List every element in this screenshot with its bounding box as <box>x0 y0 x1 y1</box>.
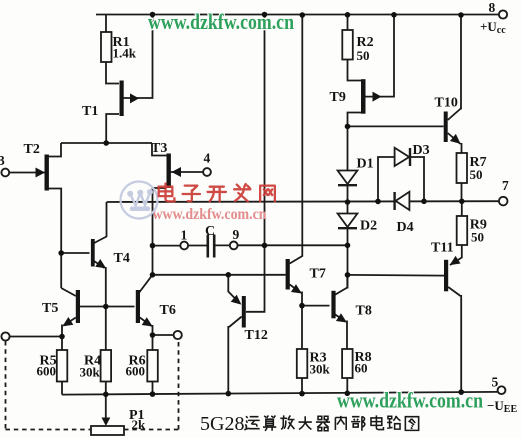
svg-text:9: 9 <box>233 227 240 242</box>
svg-text:1.4k: 1.4k <box>113 46 137 61</box>
svg-text:3: 3 <box>0 153 5 168</box>
svg-text:T7: T7 <box>310 267 326 282</box>
svg-text:T8: T8 <box>356 304 372 319</box>
svg-text:T1: T1 <box>82 104 98 119</box>
svg-text:600: 600 <box>37 364 57 379</box>
svg-text:T3: T3 <box>151 141 167 156</box>
svg-text:www.dzkfw.com.cn: www.dzkfw.com.cn <box>153 206 267 223</box>
svg-text:5G28: 5G28 <box>200 413 244 435</box>
svg-text:www.dzkfw.com.cn: www.dzkfw.com.cn <box>148 9 294 34</box>
svg-text:T11: T11 <box>431 241 454 256</box>
svg-text:8: 8 <box>489 0 496 15</box>
svg-text:T12: T12 <box>245 328 268 343</box>
svg-text:T2: T2 <box>24 142 40 157</box>
svg-text:D1: D1 <box>357 157 374 172</box>
svg-text:30k: 30k <box>80 365 101 380</box>
svg-text:30k: 30k <box>310 362 331 377</box>
svg-text:−UEE: −UEE <box>487 398 517 415</box>
svg-text:600: 600 <box>126 364 146 379</box>
svg-text:4: 4 <box>204 151 211 166</box>
svg-text:50: 50 <box>471 230 484 245</box>
svg-text:50: 50 <box>357 48 370 63</box>
svg-text:D2: D2 <box>360 219 377 234</box>
svg-text:T10: T10 <box>435 96 458 111</box>
svg-text:www.dzkfw.com.cn: www.dzkfw.com.cn <box>337 388 483 413</box>
svg-text:50: 50 <box>470 167 483 182</box>
svg-text:7: 7 <box>502 178 509 193</box>
svg-text:D4: D4 <box>397 220 414 235</box>
svg-text:+Ucc: +Ucc <box>480 19 506 36</box>
svg-text:T5: T5 <box>42 301 58 316</box>
svg-text:2k: 2k <box>132 417 147 432</box>
svg-text:C: C <box>205 224 215 239</box>
svg-text:T4: T4 <box>114 251 130 266</box>
svg-text:T9: T9 <box>330 90 346 105</box>
svg-text:5: 5 <box>492 375 499 390</box>
svg-text:T6: T6 <box>160 303 176 318</box>
svg-text:D3: D3 <box>413 143 430 158</box>
svg-text:1: 1 <box>181 228 188 243</box>
svg-text:60: 60 <box>355 361 368 376</box>
